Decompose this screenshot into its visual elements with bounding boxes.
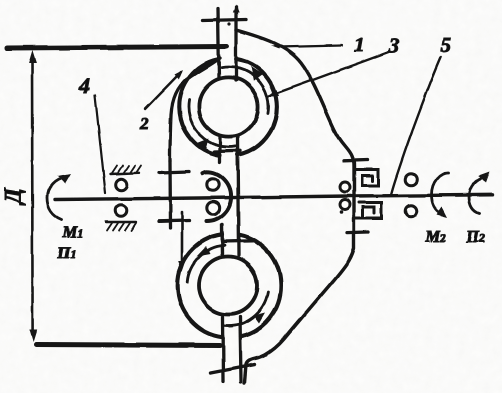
clutch tick right upper [344, 158, 367, 162]
node rotation arrow M2 [432, 173, 449, 214]
shaft vertical below carrier x=222 [220, 225, 224, 255]
bearing circle lower left [115, 205, 127, 217]
node rotation arrow M1 left [47, 178, 65, 220]
node rotation arrow P2 [469, 177, 485, 214]
wire bottom frame thick line [36, 345, 220, 346]
ground hatch lower left support [106, 221, 136, 223]
shaft vertical mid-right x=238 [238, 137, 239, 255]
gear lower: rotation arc lower-right [225, 293, 268, 327]
bearing circle upper left [116, 179, 128, 191]
svg-text:Д: Д [1, 187, 26, 206]
clutch tick mid upper y=151 [214, 149, 240, 153]
gear lower: outer ring right arc [240, 235, 281, 336]
gear upper: outer ring left arc [179, 59, 220, 155]
label 4 leader [95, 95, 106, 193]
carrier pin circle lower [207, 202, 219, 214]
node dimension arrow top [29, 50, 37, 63]
bearing circle right-outer upper [405, 174, 417, 186]
clutch tick mid lower y=241 [222, 239, 253, 243]
label 2 leader [145, 72, 181, 109]
bearing circle right-outer lower [405, 205, 417, 217]
gear lower: inner circle [199, 257, 257, 315]
gear lower: outer ring left arc [178, 234, 223, 337]
ground hatch upper left support [110, 173, 139, 174]
dot below [340, 210, 344, 214]
node dimension line Д vertical [31, 58, 34, 334]
shaft vertical top-left x=218 [218, 9, 219, 80]
svg-text:4: 4 [78, 73, 90, 98]
shaft vertical bottom-right x=240 [240, 317, 241, 382]
svg-text:2: 2 [140, 114, 150, 133]
ink dot [227, 22, 230, 25]
wire top frame thick line [7, 47, 227, 49]
arrow tip top of x=236 [233, 4, 239, 12]
shaft vertical top-right x=236 [234, 7, 237, 81]
clutch tick right lower [347, 230, 368, 234]
shaft vertical bottom-left x=223 [221, 317, 225, 381]
bearing tick bottom [211, 365, 255, 374]
gear tick upper [159, 172, 189, 173]
svg-text:5: 5 [441, 33, 452, 57]
svg-text:1: 1 [354, 35, 364, 57]
shaft vertical mid-left x=220 [218, 137, 221, 162]
carrier semicircle center [203, 172, 232, 221]
svg-text:П1: П1 [57, 245, 76, 262]
gear upper: inner circle [199, 77, 258, 136]
wire main shaft [55, 195, 492, 200]
svg-text:М1: М1 [62, 224, 83, 241]
label 1 leader [277, 46, 342, 48]
node dimension arrow bottom [29, 329, 37, 342]
label 5 leader [391, 57, 441, 195]
gear upper: rotation arc right [222, 67, 269, 114]
coupling spiral lower [355, 203, 381, 219]
arrow down at x=182 [181, 212, 184, 264]
label 3 leader [269, 52, 389, 96]
wire big curve right: top sweep to clutch column and down to lower gear [236, 30, 354, 383]
gear element vertical at x=170 [168, 161, 172, 228]
bearing circle right-inner upper [340, 182, 350, 192]
bearing tick top [203, 20, 246, 21]
gear upper: outer ring right arc [236, 59, 277, 155]
bearing circle right-inner lower [340, 200, 350, 210]
gear upper: rotation arc left [188, 100, 235, 147]
coupling spiral upper [355, 170, 379, 186]
wire curve from top shaft to gear element [170, 58, 220, 161]
gear lower: rotation arc upper-left [188, 245, 225, 282]
carrier pin circle upper [207, 178, 219, 190]
gear tick lower [159, 218, 189, 222]
svg-text:3: 3 [388, 34, 400, 58]
